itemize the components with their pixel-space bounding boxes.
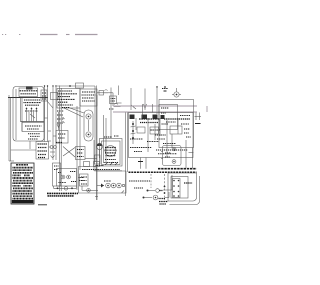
wiring code legend table xyxy=(11,163,34,204)
resistor R2 xyxy=(151,129,161,131)
junction drop dots xyxy=(164,186,166,194)
page number mark xyxy=(2,34,6,36)
legend rows xyxy=(13,168,34,199)
bake unit box xyxy=(57,169,77,187)
ground symbol GRN xyxy=(162,86,168,91)
timer label text xyxy=(47,193,78,196)
wire dashed drop left of junction xyxy=(164,174,166,200)
oven lamp capsule xyxy=(84,110,93,141)
contactor boxes xyxy=(137,127,159,134)
receptacle box xyxy=(79,167,127,194)
switch contacts SW xyxy=(131,121,136,144)
limit switch S3 xyxy=(109,103,122,109)
note text NM xyxy=(134,187,143,189)
header dot xyxy=(19,34,20,36)
wire capsule risers xyxy=(77,106,80,190)
buzzer lower box xyxy=(95,155,105,166)
header rule right xyxy=(75,34,98,36)
terminal lugs on box A top xyxy=(130,115,165,120)
thermostat label2 xyxy=(27,128,39,130)
contact row labels xyxy=(24,100,42,105)
terminal strip band lower xyxy=(129,171,197,173)
wire supply line N right xyxy=(113,111,197,113)
selector switch labels xyxy=(20,91,38,94)
receptacle left cluster xyxy=(80,174,89,186)
relay contact cluster xyxy=(79,178,85,181)
receptacle label row xyxy=(82,169,120,171)
label GRL xyxy=(184,182,193,184)
junction terminal strip xyxy=(173,179,181,198)
aux contact box xyxy=(170,126,182,134)
wire inner risers xyxy=(95,90,97,200)
motor M1 xyxy=(102,136,121,165)
relay block K2 xyxy=(80,89,97,106)
coil marks xyxy=(155,135,166,139)
wire relay feeders xyxy=(143,104,153,118)
pressure switch box xyxy=(110,96,117,104)
wire crossover X xyxy=(63,147,75,158)
junction block inner xyxy=(171,177,188,199)
relay K2 labels xyxy=(82,92,96,101)
relay block K1 xyxy=(57,89,80,109)
switch wiper wires xyxy=(29,112,35,122)
plug arrow P3 xyxy=(147,175,173,192)
bake unit contacts xyxy=(58,172,77,183)
terminal strip band upper xyxy=(158,168,197,170)
relay K1 labels xyxy=(58,91,78,108)
wire mid-right risers xyxy=(104,115,107,162)
relay coil box xyxy=(56,131,68,144)
wire relay bottom marks xyxy=(130,148,188,154)
thermostat label xyxy=(25,125,42,127)
header rule left xyxy=(40,34,58,36)
pilot lamp DS1 xyxy=(172,88,181,97)
element relay box xyxy=(129,113,194,158)
junction block shadow frame xyxy=(170,176,200,205)
selector knob blob xyxy=(26,87,33,90)
heater element E1 xyxy=(57,112,65,130)
wire under motor box xyxy=(94,170,122,172)
wire relay internal riser xyxy=(147,118,149,152)
header dash xyxy=(66,34,70,36)
junction box J1 xyxy=(51,93,59,100)
relay top label row xyxy=(139,119,190,123)
switch S2 xyxy=(99,90,108,95)
lock solenoid box GRN xyxy=(161,146,181,166)
thermostat block xyxy=(22,123,44,132)
oven control inner box xyxy=(159,105,178,130)
side component box xyxy=(41,90,53,108)
relay coil marks xyxy=(58,134,66,138)
interlock contact box xyxy=(76,147,86,160)
junction block outer xyxy=(168,173,197,201)
door lock contacts xyxy=(38,144,48,158)
plug contacts P2 xyxy=(49,146,57,152)
bottom left tail text xyxy=(159,202,168,205)
wire band feeders xyxy=(138,158,146,169)
chevron mark xyxy=(51,156,55,159)
motor box M1 xyxy=(100,139,123,167)
heater text rows xyxy=(57,111,64,123)
switch contact box xyxy=(21,98,45,122)
wire top feed xyxy=(57,85,95,90)
wire dashed riser xyxy=(150,174,152,188)
wire section divider left xyxy=(94,86,98,201)
control console box xyxy=(13,87,44,142)
interior wires K3 xyxy=(136,118,178,148)
receptacle top tabs xyxy=(84,162,100,167)
inner frame verticals xyxy=(16,89,22,140)
oven control outer box xyxy=(159,100,194,148)
wire left riser pair xyxy=(9,95,14,161)
receptacle contacts xyxy=(97,181,125,193)
wire trunk stubs xyxy=(119,86,158,115)
wire console to lock xyxy=(11,141,36,150)
buzzer BZ1 xyxy=(97,143,103,158)
coil terminal dashes xyxy=(56,142,62,144)
console inner shelf xyxy=(21,121,45,123)
door lock switch box xyxy=(36,142,49,160)
wire main divider pair xyxy=(126,112,128,196)
wire right vertical trunk xyxy=(110,88,112,139)
wire to right section xyxy=(97,93,113,106)
wire solenoid risers xyxy=(186,140,194,168)
wire supply line L1 right xyxy=(113,105,197,107)
aux marks xyxy=(184,129,191,137)
wire L1 supply bus xyxy=(8,97,48,99)
legend title xyxy=(16,164,28,166)
narrow terminal box xyxy=(53,163,61,186)
thermostat note text xyxy=(129,180,150,182)
wire link to receptacle xyxy=(82,186,98,192)
wire right drop pair A xyxy=(44,85,48,141)
wire bottom shelf xyxy=(85,158,97,160)
wire bake bottom rail with lamp xyxy=(54,186,77,190)
thermostat terminals xyxy=(28,134,40,139)
contact terminals xyxy=(26,108,38,122)
selector switch block S1 xyxy=(19,88,38,97)
wire drop pair B xyxy=(52,85,56,160)
legend side dash xyxy=(38,204,47,206)
rung ties xyxy=(45,118,57,141)
wire relay riser2 xyxy=(166,118,168,157)
resistor R1 xyxy=(25,110,38,112)
wire right edge stub xyxy=(206,106,208,112)
plug arrow P4 xyxy=(143,192,170,200)
fuse F1 xyxy=(76,83,84,88)
far right terminal marks xyxy=(195,113,202,124)
inner box marks xyxy=(161,108,169,124)
hatch marks xyxy=(105,162,118,165)
interior mark rows xyxy=(130,116,190,144)
wire middle bus pair xyxy=(60,86,62,192)
legend footer bar xyxy=(12,200,34,203)
wire diagonals under K1 xyxy=(64,108,84,117)
